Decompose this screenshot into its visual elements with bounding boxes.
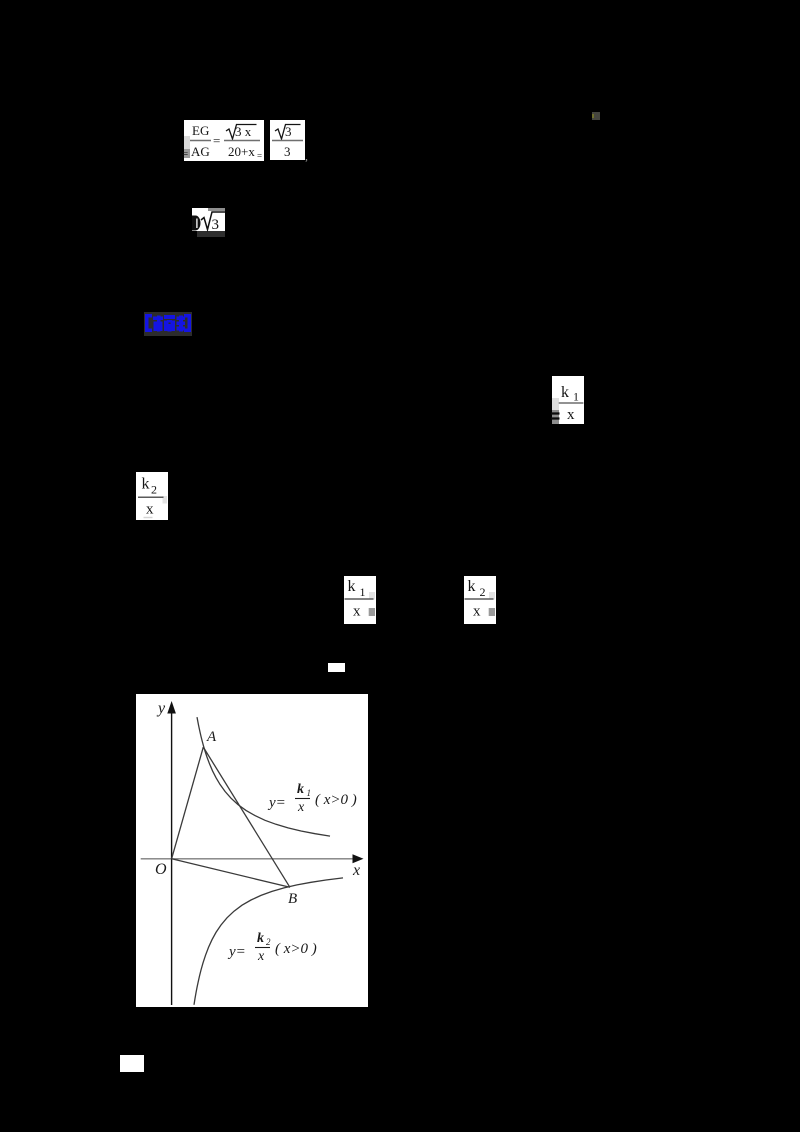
svg-text:3 x: 3 x xyxy=(235,124,252,139)
svg-text:3: 3 xyxy=(284,144,291,159)
formula image: sqrt(3) small, with clipped dark digit xyxy=(192,208,225,238)
svg-text:2: 2 xyxy=(480,585,486,599)
svg-text:=: = xyxy=(257,151,262,161)
svg-text:x: x xyxy=(257,949,265,964)
formula image: k1/x (pair, left) xyxy=(344,576,383,624)
placeholder broken-image icon top right xyxy=(592,112,600,120)
formula image: k2/x (pair, right) xyxy=(464,576,503,624)
formula image: k2/x (left) xyxy=(136,472,169,520)
svg-text:3: 3 xyxy=(285,124,292,139)
svg-text:k: k xyxy=(348,578,356,595)
svg-text:=: = xyxy=(213,133,220,148)
svg-text:A: A xyxy=(206,729,217,745)
svg-text:y=: y= xyxy=(227,944,246,960)
svg-text:x: x xyxy=(353,604,361,620)
svg-text:EG: EG xyxy=(192,123,209,138)
svg-text:k: k xyxy=(561,384,569,401)
svg-text:k: k xyxy=(297,782,304,797)
svg-text:( x>0 ): ( x>0 ) xyxy=(315,792,357,808)
blue link on grey box xyxy=(144,312,192,336)
svg-text:1: 1 xyxy=(360,585,366,599)
svg-text:k: k xyxy=(468,578,476,595)
formula image: sqrt(3)/3 xyxy=(270,120,310,162)
svg-text:2: 2 xyxy=(266,937,271,947)
small blank white formula box xyxy=(328,663,345,672)
line OA xyxy=(172,747,204,859)
svg-text:( x>0 ): ( x>0 ) xyxy=(275,941,317,957)
svg-text:=: = xyxy=(182,148,188,160)
svg-text:1: 1 xyxy=(573,390,579,404)
svg-text:x: x xyxy=(146,502,154,518)
y axis xyxy=(171,708,173,1005)
svg-text:,: , xyxy=(305,149,308,162)
svg-text:k: k xyxy=(142,476,150,493)
small blank white formula box bottom left xyxy=(120,1055,144,1072)
svg-text:k: k xyxy=(257,931,264,946)
svg-text:O: O xyxy=(155,861,167,878)
svg-text:B: B xyxy=(288,891,297,907)
svg-text:1: 1 xyxy=(307,788,312,798)
svg-text:y=: y= xyxy=(267,795,286,811)
svg-text:x: x xyxy=(473,604,481,620)
hyperbola k1 xyxy=(197,717,330,836)
formula image: k1/x (right) xyxy=(545,376,584,424)
svg-text:x: x xyxy=(297,800,305,815)
svg-text:20+x: 20+x xyxy=(228,144,255,159)
svg-text:3: 3 xyxy=(212,217,220,233)
line OB xyxy=(172,859,290,888)
formula image: EG/AG = sqrt(3)x/(20+x) xyxy=(180,120,264,161)
line AB xyxy=(203,747,290,887)
labels xyxy=(155,700,360,964)
svg-text:y: y xyxy=(156,700,166,717)
svg-text:x: x xyxy=(567,407,575,423)
x axis xyxy=(141,858,356,860)
svg-text:x: x xyxy=(352,862,360,879)
graph figure: hyperbolas y=k1/x and y=k2/x with triangle OAB xyxy=(136,694,368,1007)
hyperbola k2 xyxy=(194,878,343,1005)
svg-text:2: 2 xyxy=(151,483,157,497)
svg-text:AG: AG xyxy=(191,144,210,159)
